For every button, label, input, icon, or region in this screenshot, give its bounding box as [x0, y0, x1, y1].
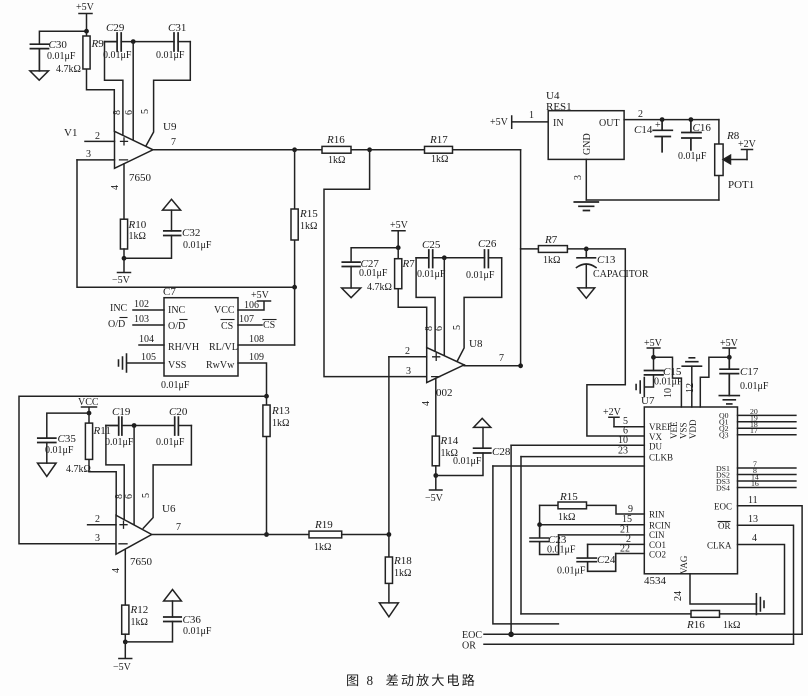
wire R14 node to C28 — [436, 453, 483, 476]
svg-text:7650: 7650 — [130, 556, 153, 568]
wire C7 pin 109 RwVw down to R13 — [238, 352, 267, 396]
wire C7 pin 104 RH/VH — [139, 334, 164, 345]
svg-text:10: 10 — [618, 435, 628, 446]
svg-text:109: 109 — [249, 352, 264, 363]
svg-text:22: 22 — [620, 544, 630, 555]
node U8 output — [518, 363, 523, 368]
node +5V/C17/VDD — [727, 355, 732, 360]
wire U6 feedback box to pin3 — [19, 396, 267, 544]
capacitor C24 0.01uF — [557, 544, 616, 576]
node +5V/R7/C27 — [396, 245, 401, 250]
earth ground (VSS top) — [682, 358, 701, 366]
svg-text:+2V: +2V — [603, 407, 622, 418]
wire +5V node to C27 — [351, 248, 398, 262]
svg-text:4534: 4534 — [644, 575, 667, 587]
svg-text:RES1: RES1 — [546, 101, 572, 113]
svg-text:U9: U9 — [163, 121, 177, 133]
earth ground (C15) — [636, 378, 644, 397]
wire pin3 U9 — [77, 149, 115, 160]
resistor R19 1k — [309, 519, 389, 553]
svg-text:C36: C36 — [183, 614, 202, 626]
svg-text:6: 6 — [434, 326, 445, 331]
+5V supply (C17/VDD) — [720, 338, 739, 357]
svg-text:4: 4 — [421, 401, 432, 406]
svg-text:1kΩ: 1kΩ — [272, 418, 289, 429]
node U9 out / R15 / R16 — [292, 147, 297, 152]
svg-text:1kΩ: 1kΩ — [129, 231, 146, 242]
svg-text:R10: R10 — [128, 219, 147, 231]
capacitor C14 (polarized) — [634, 120, 672, 152]
ground (C27) — [342, 288, 361, 298]
svg-text:0.01μF: 0.01μF — [678, 151, 707, 162]
svg-text:1kΩ: 1kΩ — [314, 542, 331, 553]
supply arrow (C36) — [164, 590, 182, 602]
resistor R14 1k — [432, 435, 459, 476]
svg-text:7: 7 — [176, 522, 181, 533]
svg-text:0.01μF: 0.01μF — [359, 268, 388, 279]
svg-text:104: 104 — [139, 334, 154, 345]
svg-text:1kΩ: 1kΩ — [394, 568, 411, 579]
resistor R15 1k (RIN loop) — [540, 491, 645, 523]
ground (C30) — [30, 71, 49, 80]
wire C25 left loop to U8 pin 8 — [416, 258, 435, 352]
wire U7 pin11 EOC — [738, 495, 803, 634]
resistor R7 4.7k — [367, 248, 427, 348]
node R7/C13 — [584, 247, 589, 252]
node +5V/R9/C30 — [84, 29, 89, 34]
wire feedback node to U8 pin3 — [324, 150, 427, 377]
node OUT/C14 — [660, 117, 665, 122]
svg-text:C7: C7 — [163, 286, 176, 298]
svg-text:OUT: OUT — [599, 118, 620, 129]
wire U7 pin15 RCIN — [540, 514, 645, 525]
svg-text:7: 7 — [171, 137, 176, 148]
node R15/C23/RCIN — [537, 522, 542, 527]
svg-text:CS: CS — [221, 321, 233, 332]
wire U6 output pin7 — [152, 522, 309, 535]
svg-text:4.7kΩ: 4.7kΩ — [66, 464, 91, 475]
svg-text:2: 2 — [638, 109, 643, 120]
capacitor C30 0.01uF — [30, 39, 75, 71]
capacitor C13 CAPACITOR — [577, 249, 649, 288]
svg-text:108: 108 — [249, 334, 264, 345]
digital pot C7 — [161, 286, 238, 391]
svg-text:1kΩ: 1kΩ — [558, 512, 575, 523]
svg-text:C24: C24 — [597, 554, 616, 566]
svg-text:+5V: +5V — [390, 220, 409, 231]
svg-text:RL/VL: RL/VL — [209, 342, 238, 353]
wire +5V to C30 — [39, 31, 86, 44]
svg-text:106: 106 — [244, 300, 259, 311]
wire U7 pin21 CIN — [559, 525, 645, 536]
resistor R12 1k — [122, 604, 149, 642]
svg-text:DS4: DS4 — [716, 483, 730, 492]
svg-text:−5V: −5V — [113, 662, 132, 673]
wire junction down to U9 pin 6 — [132, 42, 134, 141]
svg-text:C31: C31 — [168, 22, 186, 34]
wire pin2 U6 — [88, 514, 116, 525]
svg-text:4: 4 — [111, 568, 122, 573]
+5V supply (C15/VEE) — [644, 338, 663, 357]
capacitor C35 0.01uF — [38, 433, 77, 463]
wire U6 pin4 — [111, 549, 125, 605]
wire C7 pin 103 O/D — [108, 314, 164, 330]
wire C7 pin 108 RL/VL to R15 node — [238, 334, 295, 345]
svg-text:0.01μF: 0.01μF — [183, 626, 212, 637]
resistor R13 1k — [263, 396, 290, 534]
-5V supply (U9) — [112, 258, 131, 286]
ground (C35) — [38, 463, 57, 476]
+5V supply (top left) — [76, 2, 95, 31]
earth ground (VAG) — [756, 594, 764, 615]
resistor R17 1k — [370, 134, 521, 165]
svg-text:C26: C26 — [478, 238, 497, 250]
wire U9 pin4 — [110, 164, 124, 219]
wire U7 pin22 CO2 — [616, 544, 645, 555]
capacitor C15 0.01uF — [644, 357, 683, 387]
svg-text:CLKA: CLKA — [707, 541, 732, 551]
ground (C13) — [578, 288, 595, 298]
svg-text:4.7kΩ: 4.7kΩ — [56, 64, 81, 75]
node EOC/DU rail — [508, 632, 514, 638]
wire C7 pin 106 VCC to +5V — [238, 290, 271, 311]
capacitor C31 0.01uF — [156, 22, 190, 61]
earth ground (C17) — [719, 396, 739, 404]
wire U8 output pin7 — [464, 353, 520, 366]
svg-text:C17: C17 — [740, 366, 759, 378]
svg-text:0.01μF: 0.01μF — [47, 51, 76, 62]
wire U7 aux pin (unlabeled) — [493, 465, 644, 467]
wire U7 pin17 Q3 — [738, 426, 796, 435]
svg-text:−5V: −5V — [425, 493, 444, 504]
wire U7 pin23 CLKB — [521, 446, 644, 457]
svg-text:6: 6 — [124, 494, 135, 499]
wire VCC node to C35 — [47, 413, 89, 438]
svg-text:O/D: O/D — [168, 321, 185, 332]
op-amp U8 — [427, 338, 483, 399]
svg-text:GND: GND — [582, 133, 593, 155]
svg-text:C28: C28 — [492, 446, 511, 458]
svg-text:C25: C25 — [422, 239, 441, 251]
svg-text:1kΩ: 1kΩ — [300, 221, 317, 232]
op-amp U9 7650 — [115, 121, 177, 184]
wire pin2 U8 — [389, 346, 427, 357]
svg-text:5: 5 — [140, 109, 151, 114]
svg-text:VX: VX — [649, 432, 662, 442]
svg-text:C32: C32 — [182, 227, 200, 239]
wire VSS pin to ground — [685, 366, 696, 407]
svg-text:CAPACITOR: CAPACITOR — [593, 269, 649, 280]
svg-text:图 8 差动放大电路: 图 8 差动放大电路 — [346, 673, 477, 688]
svg-text:4.7kΩ: 4.7kΩ — [367, 282, 392, 293]
svg-text:C14: C14 — [634, 124, 653, 136]
svg-text:15: 15 — [622, 514, 632, 525]
svg-text:R13: R13 — [271, 405, 290, 417]
regulator U4 RES1 — [546, 90, 624, 159]
wire EOC rail — [462, 630, 802, 641]
wire junction down to U6 pin 6 — [133, 426, 135, 526]
node R10/C32/-5V — [122, 256, 127, 261]
svg-text:13: 13 — [748, 514, 758, 525]
svg-text:1kΩ: 1kΩ — [723, 620, 740, 631]
wire U7 pin18 Q2 — [738, 420, 796, 429]
wire +5V node to VEE pin — [654, 357, 682, 407]
svg-text:RwVw: RwVw — [206, 360, 235, 371]
svg-text:RCIN: RCIN — [649, 521, 671, 531]
svg-text:17: 17 — [750, 426, 758, 435]
svg-text:IN: IN — [553, 118, 564, 129]
wire C29 left loop to U9 pin 8 — [105, 42, 123, 136]
svg-text:0.01μF: 0.01μF — [557, 566, 586, 577]
svg-text:INC: INC — [110, 303, 128, 314]
svg-text:107: 107 — [239, 314, 254, 325]
svg-text:0.01μF: 0.01μF — [740, 381, 769, 392]
resistor R18 1k — [385, 535, 412, 603]
node R15 bottom — [292, 285, 297, 290]
svg-text:0.01μF: 0.01μF — [453, 456, 482, 467]
wire aux pin down stub — [493, 466, 559, 624]
wire U4 GND pin3 — [573, 159, 586, 200]
svg-text:0.01μF: 0.01μF — [156, 50, 185, 61]
svg-text:VREF: VREF — [649, 422, 672, 432]
svg-text:10: 10 — [663, 388, 674, 398]
node R19/R18/U8 pin2 — [387, 532, 392, 537]
svg-text:0.01μF: 0.01μF — [183, 240, 212, 251]
svg-text:002: 002 — [436, 387, 453, 399]
svg-text:U7: U7 — [641, 395, 655, 407]
capacitor C26 0.01uF — [466, 238, 502, 281]
ADC U7 4534 — [641, 395, 738, 587]
svg-text:U8: U8 — [469, 338, 483, 350]
svg-text:−5V: −5V — [112, 275, 131, 286]
supply arrow (C32) — [163, 199, 181, 210]
svg-text:Q3: Q3 — [719, 431, 729, 440]
node C29/C31 junction — [131, 39, 136, 44]
capacitor C28 0.01uF — [453, 427, 511, 467]
node C25/C26 junction — [442, 255, 447, 260]
svg-text:C13: C13 — [597, 254, 616, 266]
svg-text:6: 6 — [124, 110, 135, 115]
node R13 bottom / U6 out — [264, 532, 269, 537]
svg-text:0.01μF: 0.01μF — [156, 437, 185, 448]
svg-text:VSS: VSS — [168, 360, 186, 371]
wire U4 OUT pin2 — [624, 109, 719, 120]
potentiometer R8 POT1 — [715, 120, 755, 200]
svg-text:+5V: +5V — [490, 117, 509, 128]
svg-text:1: 1 — [529, 110, 534, 121]
wire +5V node to VDD pin — [700, 357, 729, 407]
wire U9 output pin7 — [153, 137, 295, 150]
svg-text:O/D: O/D — [108, 319, 125, 330]
svg-text:7650: 7650 — [129, 172, 152, 184]
svg-text:0.01μF: 0.01μF — [417, 269, 446, 280]
svg-text:POT1: POT1 — [728, 179, 754, 191]
earth ground (C7 pin 105) — [119, 354, 127, 372]
svg-text:3: 3 — [95, 533, 100, 544]
svg-text:0.01μF: 0.01μF — [466, 270, 495, 281]
wire R12 node to C36 — [125, 622, 172, 642]
wire C31 right loop to U9 pin 5 — [146, 42, 190, 146]
svg-text:1kΩ: 1kΩ — [328, 155, 345, 166]
svg-text:102: 102 — [134, 299, 149, 310]
capacitor C19 0.01uF — [105, 406, 175, 448]
svg-text:8: 8 — [112, 110, 123, 115]
svg-text:R18: R18 — [393, 555, 412, 567]
svg-text:C19: C19 — [112, 406, 131, 418]
supply arrow (C28) — [474, 418, 491, 427]
wire R15 left down to RCIN — [539, 505, 541, 524]
capacitor C27 0.01uF — [342, 258, 388, 288]
svg-text:C16: C16 — [693, 122, 712, 134]
wire pin2 U9 — [85, 131, 115, 142]
resistor R16 1k — [295, 134, 370, 166]
node OUT/C16 — [689, 117, 694, 122]
svg-text:5: 5 — [452, 325, 463, 330]
capacitor C25 0.01uF — [416, 239, 484, 280]
svg-text:R12: R12 — [130, 604, 149, 616]
svg-text:3: 3 — [573, 175, 584, 180]
wire U7 pin14 DS3 — [738, 473, 796, 482]
ground (R18) — [379, 603, 398, 617]
resistor R9 4.7k — [56, 31, 114, 131]
svg-text:R9: R9 — [91, 38, 105, 50]
svg-text:0.01μF: 0.01μF — [105, 437, 134, 448]
wire U7 pin7 DS1 — [738, 460, 796, 469]
svg-text:105: 105 — [141, 352, 156, 363]
wire C26 right loop to U8 pin 5 — [457, 258, 502, 362]
wire C20 right loop to U6 pin 5 — [143, 426, 191, 529]
svg-text:0.01μF: 0.01μF — [45, 445, 74, 456]
resistor R10 1k — [120, 219, 146, 258]
svg-text:2: 2 — [405, 346, 410, 357]
+2V supply (VREF) — [603, 407, 622, 427]
op-amp U6 7650 — [116, 503, 176, 568]
svg-text:VDD: VDD — [688, 419, 698, 439]
svg-text:R7: R7 — [402, 258, 416, 270]
svg-text:EOC: EOC — [714, 502, 732, 512]
wire junction down to U8 pin 6 — [443, 258, 445, 356]
wire C19 left loop to U6 pin 8 — [106, 426, 124, 520]
svg-text:1kΩ: 1kΩ — [543, 255, 560, 266]
svg-text:12: 12 — [685, 383, 696, 393]
wire GND rail to R8 bottom — [586, 199, 719, 201]
svg-text:VSS: VSS — [679, 422, 689, 439]
-5V supply (U8) — [425, 476, 444, 505]
svg-text:1kΩ: 1kΩ — [431, 154, 448, 165]
svg-text:0.01μF: 0.01μF — [654, 377, 683, 388]
capacitor C20 0.01uF — [156, 406, 191, 448]
node RwVw/R13/feedback — [264, 394, 269, 399]
+5V supply (U8) — [390, 220, 409, 248]
wire U7 pin8 DS2 — [738, 466, 796, 475]
svg-text:DU: DU — [649, 442, 662, 452]
wire U7 pin10 DU — [511, 435, 644, 446]
-5V supply (U6) — [113, 642, 132, 673]
svg-text:3: 3 — [406, 366, 411, 377]
svg-text:RIN: RIN — [649, 510, 665, 520]
wire C13 node to U7 VX — [586, 249, 644, 436]
wire U7 pin16 DS4 — [738, 479, 796, 488]
svg-text:1kΩ: 1kΩ — [131, 617, 148, 628]
wire DU down to EOC rail — [510, 445, 512, 634]
svg-text:4: 4 — [110, 185, 121, 190]
svg-text:INC: INC — [168, 305, 186, 316]
earth ground (U4 GND) — [574, 202, 598, 211]
wire C7 pin 102 INC — [110, 299, 164, 314]
+5V input terminal (U4) — [490, 110, 548, 128]
capacitor C36 0.01uF — [164, 601, 212, 637]
svg-text:CLKB: CLKB — [649, 453, 673, 463]
svg-text:4: 4 — [752, 533, 757, 544]
svg-text:R14: R14 — [440, 435, 459, 447]
svg-text:VCC: VCC — [214, 305, 235, 316]
resistor R11 4.7k — [66, 413, 116, 515]
resistor R15 1k — [291, 150, 318, 287]
svg-text:CO2: CO2 — [649, 550, 666, 560]
svg-text:V1: V1 — [64, 127, 77, 139]
wire R15 node down to C7 pin108 — [294, 287, 296, 345]
node R16/R17/U8 pin3 — [367, 147, 372, 152]
wire U8 pin2 down to R18 node — [388, 357, 390, 535]
capacitor C23 0.01uF — [530, 525, 576, 556]
wire R10 to C32 — [124, 236, 172, 259]
svg-text:CO1: CO1 — [649, 540, 666, 550]
svg-text:103: 103 — [134, 314, 149, 325]
resistor R7 1k (output filter) — [521, 234, 587, 266]
wire U7 pin24 VAG — [673, 574, 756, 604]
wire CLKB down to R16 rail — [520, 457, 522, 614]
svg-text:24: 24 — [673, 591, 684, 601]
svg-text:R16: R16 — [686, 619, 705, 631]
svg-text:C20: C20 — [169, 406, 188, 418]
svg-text:C35: C35 — [58, 433, 77, 445]
wire U7 pin4 CLKA — [738, 533, 785, 614]
svg-text:R11: R11 — [93, 425, 111, 437]
svg-text:R15: R15 — [299, 208, 318, 220]
node VCC/R11/C35 — [87, 411, 92, 416]
wire U7 pin2 CO1 — [588, 534, 645, 545]
svg-text:OR: OR — [718, 521, 731, 531]
capacitor C16 0.01uF — [678, 120, 711, 162]
wire R17 right down to U8 output — [520, 150, 522, 366]
svg-text:EOC: EOC — [462, 630, 482, 641]
svg-text:RH/VH: RH/VH — [168, 342, 199, 353]
node +5V/C15/VEE — [651, 355, 656, 360]
svg-text:0.01μF: 0.01μF — [161, 380, 190, 391]
svg-text:U6: U6 — [162, 503, 176, 515]
svg-text:+5V: +5V — [76, 2, 95, 13]
+2V supply (R8 wiper) — [738, 139, 757, 160]
capacitor C32 0.01uF — [164, 210, 212, 251]
wire OR rail — [462, 641, 794, 652]
svg-text:R15: R15 — [559, 491, 578, 503]
wire U8 pin4 — [421, 378, 436, 436]
svg-text:OR: OR — [462, 641, 476, 652]
svg-text:R16: R16 — [326, 134, 345, 146]
svg-text:0.01μF: 0.01μF — [547, 545, 576, 556]
svg-text:R7: R7 — [544, 234, 558, 246]
svg-text:+2V: +2V — [738, 139, 757, 150]
resistor R16 1k (CLKA-CLKB rail) — [521, 611, 785, 632]
svg-text:C30: C30 — [49, 39, 68, 51]
svg-text:16: 16 — [751, 479, 759, 488]
svg-text:5: 5 — [141, 493, 152, 498]
wire U7 pin5 VREF — [614, 416, 644, 427]
svg-text:2: 2 — [95, 514, 100, 525]
svg-text:C29: C29 — [106, 22, 125, 34]
node C19/C20 junction — [132, 423, 137, 428]
node R12/C36/-5V — [123, 640, 128, 645]
